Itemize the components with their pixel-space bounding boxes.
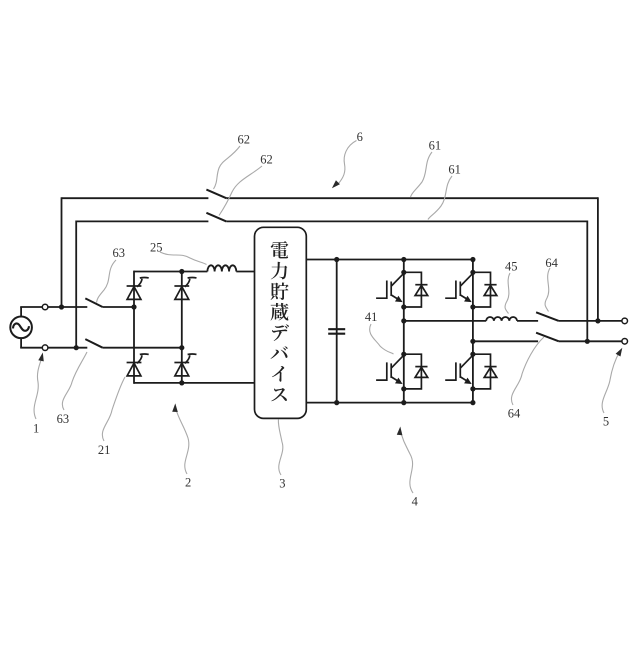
wire lower bypass right segment xyxy=(226,220,587,222)
label 3 leader xyxy=(278,420,282,476)
node right leg tap xyxy=(470,339,475,344)
label 41 leader xyxy=(370,324,394,354)
igbt 41b (upper right) xyxy=(445,272,497,307)
label 6 arrowhead xyxy=(330,180,340,190)
wire switch 63b to bridge right leg xyxy=(103,347,182,349)
label 2 leader arrow xyxy=(176,409,189,474)
svg-text:45: 45 xyxy=(505,260,518,274)
wire switch 64a to upper terminal xyxy=(559,320,622,322)
igbt 41a (upper left) xyxy=(376,272,428,307)
switch 64a xyxy=(536,312,559,321)
wire ac top terminal to switch 63a xyxy=(48,306,87,308)
switch 63b xyxy=(85,339,102,348)
terminal out bottom (5) xyxy=(622,339,628,345)
wire bridge right leg xyxy=(181,271,183,384)
svg-text:3: 3 xyxy=(279,477,285,491)
node bridge left mid xyxy=(131,304,136,309)
thyristor 21a (upper left) xyxy=(127,277,149,299)
svg-text:2: 2 xyxy=(185,476,191,490)
wire capacitor xyxy=(336,260,338,403)
wire bridge top rail to inductor 25 xyxy=(134,271,207,273)
terminal ac bottom xyxy=(42,345,48,351)
wire lower bypass left segment xyxy=(76,220,208,222)
node igbt left top xyxy=(401,257,406,262)
ac source lead top xyxy=(20,307,22,317)
label 63 leader top xyxy=(97,260,117,303)
wire dc top rail xyxy=(306,259,473,261)
svg-text:63: 63 xyxy=(113,246,126,260)
switch 62 lower xyxy=(206,213,226,222)
storage device box 3 xyxy=(255,227,307,418)
storage device label text xyxy=(271,241,289,401)
label 6 leader arrow xyxy=(339,141,357,184)
capacitor C xyxy=(328,329,345,334)
wire dc bottom rail xyxy=(306,402,473,404)
ac source lead bottom xyxy=(20,338,22,348)
svg-text:64: 64 xyxy=(508,406,521,420)
label 4 leader arrow xyxy=(401,431,413,493)
label 4 arrowhead xyxy=(397,426,403,435)
svg-text:25: 25 xyxy=(150,241,163,255)
wire bridge left leg xyxy=(133,271,135,384)
wire switch 63a to bridge left leg xyxy=(103,306,134,308)
wire upper bypass right segment xyxy=(226,197,598,199)
svg-text:21: 21 xyxy=(98,443,111,457)
label 61 leader b xyxy=(428,176,452,220)
node emitter q1 xyxy=(401,304,406,309)
label 2 arrowhead xyxy=(172,403,178,412)
label 61 leader a xyxy=(411,152,433,197)
node collector q3 xyxy=(401,352,406,357)
node left leg tap xyxy=(401,318,406,323)
node collector q2 xyxy=(470,270,475,275)
svg-text:64: 64 xyxy=(545,256,558,270)
label 64 leader top xyxy=(545,268,550,312)
node top rail right leg xyxy=(179,269,184,274)
svg-text:5: 5 xyxy=(603,415,609,429)
ac source 1 xyxy=(10,317,32,339)
svg-text:63: 63 xyxy=(57,412,70,426)
node riser outer join xyxy=(595,318,600,323)
node collector q4 xyxy=(470,352,475,357)
switch 62 upper xyxy=(206,190,226,199)
label 1 leader arrow xyxy=(34,357,42,419)
node emitter q4 xyxy=(470,386,475,391)
wire ac top to terminal xyxy=(20,306,42,308)
wire right leg tap to switch 64b xyxy=(473,340,538,342)
wire igbt left leg xyxy=(403,260,405,403)
label 25 leader xyxy=(160,252,207,265)
node upper bypass tap xyxy=(59,304,64,309)
svg-text:61: 61 xyxy=(429,138,442,152)
svg-text:62: 62 xyxy=(260,152,273,166)
node bottom rail right leg xyxy=(179,380,184,385)
svg-text:1: 1 xyxy=(33,421,39,435)
terminal ac top xyxy=(42,304,48,310)
thyristor 21b (upper right) xyxy=(174,277,196,299)
node cap top xyxy=(334,257,339,262)
wire ac bottom terminal to switch 63b xyxy=(48,347,87,349)
inductor 25 xyxy=(207,265,236,271)
inductor 45 xyxy=(486,317,517,321)
wire bridge bottom rail to storage box xyxy=(134,382,255,384)
label 5 leader arrow xyxy=(602,351,620,413)
wire igbt right leg xyxy=(472,259,474,404)
igbt 41d (lower right) xyxy=(445,354,497,389)
svg-text:4: 4 xyxy=(412,495,419,509)
svg-text:61: 61 xyxy=(448,163,461,177)
node lower bypass tap xyxy=(74,345,79,350)
node cap bottom xyxy=(334,400,339,405)
wire inductor 25 to storage box xyxy=(236,271,254,273)
wire left leg tap to inductor 45 xyxy=(404,320,486,322)
terminal out top (5) xyxy=(622,318,628,324)
label 63 leader bottom xyxy=(62,352,87,410)
wire right riser outer (61) xyxy=(597,197,599,321)
wire right riser inner (61) xyxy=(586,221,588,342)
label 62 leader b xyxy=(219,166,262,216)
node emitter q3 xyxy=(401,386,406,391)
node riser inner join xyxy=(585,339,590,344)
node bridge right mid xyxy=(179,345,184,350)
node emitter q2 xyxy=(470,304,475,309)
wire ac bottom to terminal xyxy=(20,347,42,349)
label 64 leader bottom xyxy=(511,337,544,405)
thyristor 21c (lower left) xyxy=(127,354,149,376)
label 62 leader a xyxy=(214,146,241,189)
label 5 arrowhead xyxy=(616,346,625,356)
node igbt left bottom xyxy=(401,400,406,405)
svg-text:6: 6 xyxy=(357,130,363,144)
label 21 leader xyxy=(102,377,125,441)
switch 63a xyxy=(85,298,102,307)
wire upper bypass left segment xyxy=(62,197,209,199)
label 1 arrowhead xyxy=(38,352,45,361)
node igbt right bottom xyxy=(470,400,475,405)
svg-text:62: 62 xyxy=(237,133,250,147)
wire switch 64b to lower terminal xyxy=(559,340,622,342)
switch 64b xyxy=(536,333,559,342)
wire inductor 45 to switch 64a xyxy=(517,320,538,322)
node collector q1 xyxy=(401,270,406,275)
igbt 41c (lower left) xyxy=(376,354,428,389)
node igbt right top xyxy=(470,257,475,262)
wire left riser to upper bypass xyxy=(61,197,63,307)
thyristor 21d (lower right) xyxy=(174,354,196,376)
svg-text:41: 41 xyxy=(365,310,378,324)
wire left riser to lower bypass xyxy=(75,221,77,348)
label 45 leader xyxy=(505,273,510,314)
